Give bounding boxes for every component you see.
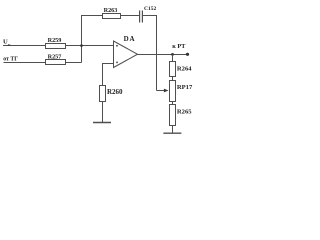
wire op-amp non-inverting input to R260: [103, 64, 114, 86]
wire output node down to R264: [172, 55, 174, 62]
svg-text:C152: C152: [144, 6, 156, 12]
wire R257 up to summing node: [66, 62, 82, 64]
wire input 2: [4, 62, 46, 64]
svg-text:зс: зс: [8, 42, 11, 46]
svg-text:к РТ: к РТ: [172, 43, 186, 50]
svg-text:DA: DA: [124, 35, 136, 43]
ground left: [93, 122, 111, 124]
wire R260 to ground: [102, 102, 104, 123]
wire output: [138, 54, 188, 56]
wire input 1: [3, 45, 46, 47]
resistor R259: [46, 37, 66, 48]
resistor R264: [170, 62, 193, 77]
svg-text:R257: R257: [48, 53, 62, 60]
svg-text:R264: R264: [177, 65, 192, 72]
wire RP17 to R265: [172, 102, 174, 105]
potentiometer RP17: [157, 81, 193, 102]
wire top feedback horizontal: [81, 15, 103, 17]
wire right feedback vertical to wiper: [156, 15, 158, 91]
svg-text:R259: R259: [48, 37, 62, 44]
node output terminal к РТ: [172, 43, 189, 56]
resistor R265: [170, 105, 193, 126]
wire R259 to op-amp inverting input: [66, 45, 114, 47]
svg-text:R263: R263: [104, 7, 118, 14]
op-amp DA triangle: [114, 35, 138, 68]
wire left feedback vertical: [81, 15, 83, 63]
svg-text:R260: R260: [107, 88, 123, 96]
node output junction: [171, 53, 174, 56]
wire R264 to RP17: [172, 77, 174, 81]
wire C152 to right corner: [142, 15, 156, 17]
resistor R257: [46, 53, 66, 64]
svg-text:R265: R265: [177, 108, 192, 115]
svg-text:RP17: RP17: [177, 84, 193, 91]
capacitor C152: [140, 6, 157, 22]
svg-text:от ТГ: от ТГ: [3, 56, 18, 62]
node input label U: [3, 39, 11, 47]
node summing junction: [80, 44, 83, 47]
wire R265 to ground: [172, 126, 174, 134]
resistor R263: [103, 7, 121, 19]
wire R263 to C152: [121, 15, 140, 17]
ground right: [163, 132, 181, 134]
resistor R260: [100, 86, 124, 102]
